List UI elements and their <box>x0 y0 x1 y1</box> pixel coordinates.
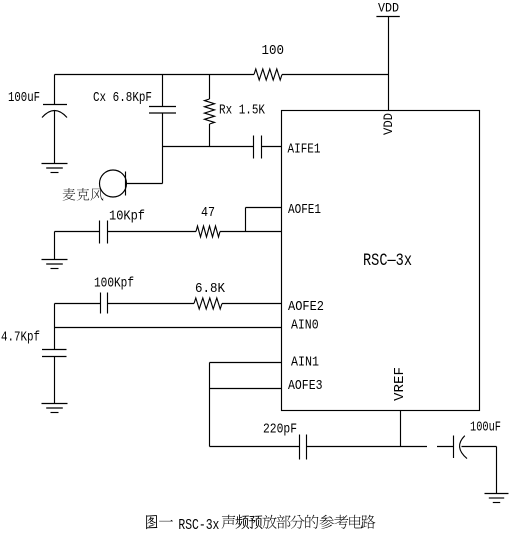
resistor 100 <box>254 44 284 80</box>
wire VREF <box>400 411 402 447</box>
caption 图一 RSC-3x 声频预放部分的参考电路 <box>146 514 375 534</box>
VDD terminal bar <box>376 16 399 18</box>
svg-text:220pF: 220pF <box>263 423 297 438</box>
wire R47 to chip <box>220 231 282 233</box>
resistor Rx 1.5K <box>205 75 266 147</box>
wire stub before 100uF <box>437 446 454 448</box>
capacitor 100uF (left, polarized) <box>8 75 67 164</box>
svg-text:AOFE3: AOFE3 <box>288 378 323 394</box>
label 麦克风 <box>63 188 104 201</box>
capacitor AIFE1 coupling <box>254 136 262 159</box>
wire AOFE1 jog <box>246 208 282 232</box>
wire cap to AIFE1 pin <box>262 146 282 148</box>
wire top rail left <box>55 74 255 76</box>
svg-text:47: 47 <box>201 206 215 221</box>
wire 100uF to ground corner <box>462 447 497 494</box>
svg-text:100uF: 100uF <box>8 91 40 106</box>
wire mic to Cx node <box>126 183 163 185</box>
wire VDD vertical <box>388 17 390 111</box>
svg-text:10Kpf: 10Kpf <box>109 210 145 225</box>
capacitor 100Kpf <box>94 277 134 314</box>
svg-text:VDD: VDD <box>378 1 399 16</box>
wire 10Kpf to ground <box>54 232 56 260</box>
wire left node vertical <box>54 304 56 350</box>
capacitor 4.7Kpf <box>1 331 67 357</box>
wire AOFE3 <box>210 388 282 390</box>
wire AIN1 <box>210 362 282 364</box>
ground G1 <box>42 164 68 173</box>
svg-text:RSC-3x: RSC-3x <box>178 517 219 534</box>
wire 4.7Kpf to ground <box>54 357 56 404</box>
wire cap to R6.8K <box>108 303 195 305</box>
resistor 6.8K <box>194 282 226 309</box>
ground G2 <box>42 260 68 269</box>
resistor 47 <box>196 206 220 237</box>
svg-text:AIN0: AIN0 <box>291 317 319 333</box>
svg-text:RSC—3x: RSC—3x <box>363 251 412 271</box>
svg-text:Rx 1.5K: Rx 1.5K <box>219 104 266 119</box>
capacitor 220pF <box>263 423 307 460</box>
svg-text:AOFE2: AOFE2 <box>288 299 324 315</box>
wire AOFE2 branch left <box>55 303 101 305</box>
svg-text:AIFE1: AIFE1 <box>288 142 321 158</box>
ground G4 <box>485 494 509 503</box>
capacitor Cx 6.8KpF <box>93 75 176 184</box>
power rail VDD <box>378 1 399 16</box>
capacitor 100uF (right, polarized) <box>454 421 502 459</box>
wire 10Kpf branch left <box>55 231 100 233</box>
capacitor 10Kpf <box>100 210 146 244</box>
wire R6.8K to chip <box>222 303 282 305</box>
wire top rail right <box>282 74 389 76</box>
svg-text:VDD: VDD <box>381 113 396 135</box>
wire bottom rail left <box>210 446 300 448</box>
svg-text:AIN1: AIN1 <box>291 354 319 370</box>
wire cap to R47 <box>108 231 197 233</box>
svg-text:4.7Kpf: 4.7Kpf <box>1 331 40 346</box>
svg-text:Cx 6.8KpF: Cx 6.8KpF <box>93 91 152 106</box>
microphone 麦克风 <box>100 170 127 197</box>
wire bottom rail mid <box>307 446 428 448</box>
svg-text:VREF: VREF <box>392 367 408 401</box>
svg-text:6.8K: 6.8K <box>195 282 226 297</box>
svg-text:100: 100 <box>262 44 285 59</box>
wire AIN0 <box>55 327 282 329</box>
svg-text:100uF: 100uF <box>470 421 501 436</box>
svg-text:AOFE1: AOFE1 <box>288 202 321 218</box>
ground G3 <box>42 404 68 413</box>
IC U1 RSC-3x body <box>282 111 480 411</box>
wire junction to AIFE1 cap <box>163 146 254 148</box>
wire loop vertical <box>209 363 211 447</box>
svg-text:100Kpf: 100Kpf <box>94 277 134 292</box>
